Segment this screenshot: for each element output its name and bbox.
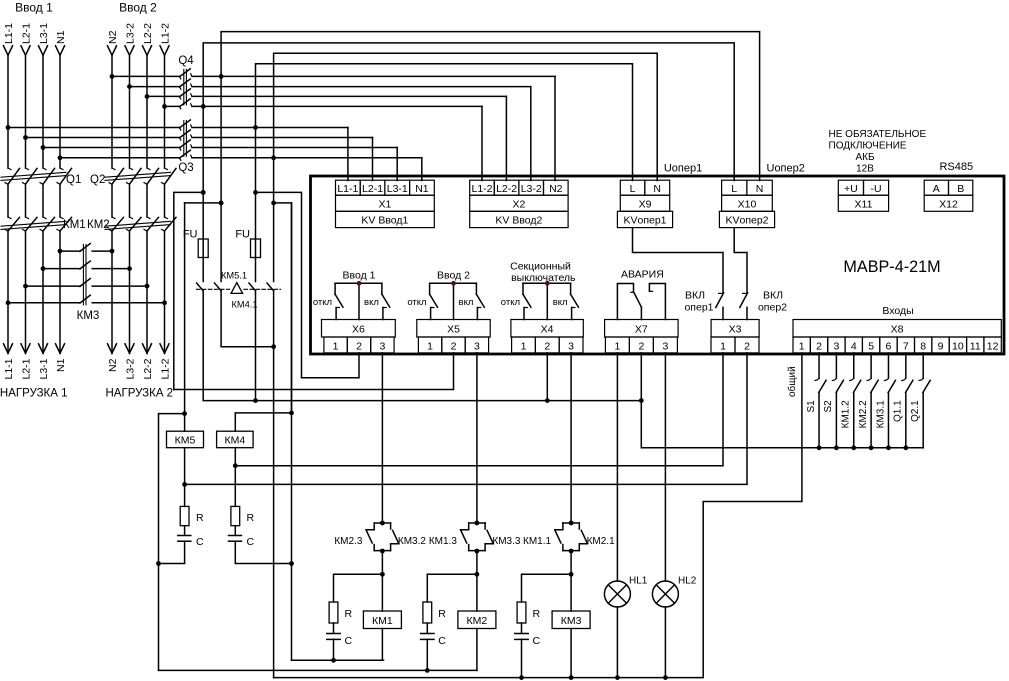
svg-text:L2-2: L2-2: [142, 358, 154, 379]
node L-oper / X7 pin2: [639, 398, 644, 403]
svg-text:C: C: [533, 635, 541, 647]
svg-text:1: 1: [799, 340, 805, 352]
input arrow L1-2 (Ввод 2): [160, 46, 169, 56]
svg-text:L1-2: L1-2: [159, 358, 171, 379]
svg-text:X5: X5: [447, 324, 460, 336]
wire L1-1 between Q1 and KM1: [7, 184, 9, 217]
svg-text:Q4: Q4: [178, 55, 194, 67]
wire R to C (KM5 snubber): [184, 526, 186, 536]
load arrow N1 (НАГРУЗКА 1): [56, 344, 65, 354]
wire snubber branch КМ3: [522, 574, 572, 602]
wire feed to contact pair КМ2.3/КМ3.2: [381, 353, 383, 523]
contactor KM2 (4-pole): [105, 217, 176, 231]
svg-text:Входы: Входы: [882, 305, 913, 317]
wire tap L2-1 to Q3 pole 2: [26, 137, 180, 139]
node N2 / X10-N junction: [219, 74, 224, 79]
input arrow L2-2 (Ввод 2): [143, 46, 152, 56]
svg-text:HL2: HL2: [678, 576, 697, 587]
svg-text:10: 10: [952, 340, 964, 352]
wire N1 net to KM4.1 pole4: [273, 158, 275, 282]
node KM5 RC bottom tie: [156, 561, 161, 566]
wire X7 pin2 to L-oper row and S-bus: [641, 353, 923, 448]
svg-text:КМ4: КМ4: [225, 435, 246, 447]
svg-text:L2-2: L2-2: [142, 23, 154, 44]
svg-text:АВАРИЯ: АВАРИЯ: [621, 269, 664, 281]
svg-text:КМ3: КМ3: [77, 310, 100, 322]
svg-text:C: C: [247, 536, 255, 548]
terminal X4 (Секционный выключатель): [511, 320, 583, 353]
svg-text:3: 3: [662, 340, 668, 352]
contact pair КМ1.3 / КМ3.3: [469, 522, 485, 524]
svg-text:4: 4: [851, 340, 857, 352]
svg-text:L3-1: L3-1: [387, 183, 408, 195]
lamp HL1: [604, 581, 630, 607]
svg-text:KV Ввод2: KV Ввод2: [495, 215, 542, 227]
svg-text:КМ3.3: КМ3.3: [492, 536, 520, 547]
wire load bus L2-2: [146, 231, 148, 353]
wire load bus L1-1: [7, 231, 9, 353]
resistor R (КМ3 snubber): [517, 602, 526, 623]
svg-text:Q2: Q2: [90, 174, 105, 186]
wire N1 branch row to right riser: [274, 203, 292, 413]
contactor KM3 pole 4 link: [8, 302, 80, 304]
node L-oper / KM4.1 pole3: [253, 398, 258, 403]
node snubber branch КМ2: [475, 572, 480, 577]
svg-text:КМ2: КМ2: [467, 615, 488, 627]
svg-text:A: A: [933, 183, 940, 195]
wire X9-N to N1 net: [274, 53, 658, 180]
svg-text:НАГРУЗКА 1: НАГРУЗКА 1: [0, 388, 67, 400]
terminal X12 (RS485): [924, 180, 973, 211]
svg-text:-U: -U: [871, 183, 882, 195]
svg-text:L1-1: L1-1: [337, 183, 358, 195]
svg-text:X12: X12: [939, 198, 958, 210]
wire Q3 pole 4 output to X1 N1: [192, 157, 422, 159]
wire R to C (KM4 snubber): [234, 526, 236, 536]
contact X4 вкл: [570, 283, 572, 294]
wire KM2 return row (N2): [159, 669, 477, 671]
contactor coil КМ1: [363, 611, 401, 629]
capacitor C (KM5 snubber): [178, 535, 191, 537]
wire tap L1-2 to Q4 pole 4: [165, 105, 180, 107]
wire KM5.1 pole2 blade to N-oper join: [221, 291, 274, 347]
node S-bus КМ2.2: [869, 445, 874, 450]
input arrow L2-1 (Ввод 1): [21, 46, 30, 56]
svg-text:X10: X10: [738, 198, 757, 210]
svg-text:Q1.1: Q1.1: [893, 400, 904, 422]
svg-text:ВКЛ: ВКЛ: [685, 290, 705, 302]
wire X4 pin2 to L-oper row: [546, 353, 548, 401]
contact group X4 roof: [523, 282, 571, 284]
input arrow L3-1 (Ввод 1): [39, 46, 48, 56]
svg-text:X7: X7: [635, 324, 648, 336]
wire N2 between Q2 and KM2: [111, 184, 113, 217]
wire R to C (КМ2 snubber): [426, 623, 428, 633]
wire load bus N2: [111, 231, 113, 353]
svg-text:Ввод 2: Ввод 2: [437, 270, 470, 282]
wire KM4 feed row: [235, 413, 291, 431]
wire lamp HL1 to return: [616, 607, 618, 678]
svg-text:7: 7: [903, 340, 909, 352]
contact X4 откл: [522, 283, 524, 294]
svg-text:R: R: [345, 608, 353, 620]
input switch КМ3.1 (X8 pin6): [884, 353, 895, 448]
wire load bus L2-1: [25, 231, 27, 353]
contact group АВАРИЯ (above X7): [617, 284, 665, 320]
wire X7 to lamp HL1: [616, 353, 618, 581]
svg-text:Q2.1: Q2.1: [910, 400, 921, 422]
terminal X9 (KVопер1): [617, 180, 672, 227]
terminal X10 (KVопер2): [719, 180, 774, 227]
svg-text:КМ1.2: КМ1.2: [841, 400, 852, 428]
wire C bottom to N2 side (KM5 snubber): [159, 541, 185, 563]
contactor coil КМ3: [552, 611, 590, 629]
wire FU2 to KM4.1 pole3: [255, 258, 257, 282]
contactor KM3 pole 3 link: [26, 285, 80, 287]
svg-text:9: 9: [938, 340, 944, 352]
svg-text:Q1: Q1: [66, 174, 81, 186]
svg-text:2: 2: [356, 340, 362, 352]
svg-text:L2-1: L2-1: [362, 183, 383, 195]
svg-text:X6: X6: [352, 324, 365, 336]
svg-text:откл: откл: [313, 297, 332, 308]
svg-text:КМ1.1: КМ1.1: [523, 536, 551, 547]
svg-text:N2: N2: [107, 30, 119, 44]
svg-text:C: C: [438, 635, 446, 647]
node N-oper join: [271, 344, 276, 349]
svg-text:МАВР-4-21М: МАВР-4-21М: [843, 258, 940, 276]
input arrow L1-1 (Ввод 1): [4, 46, 13, 56]
node N2 branch: [219, 201, 224, 206]
svg-text:Q3: Q3: [178, 162, 193, 174]
wire KVопер1 to ВКЛ опер1 contact: [633, 228, 724, 294]
svg-text:КМ1: КМ1: [372, 615, 393, 627]
wire L1-1 net to FU2: [255, 128, 257, 240]
svg-text:X2: X2: [512, 198, 525, 210]
svg-text:L1-1: L1-1: [3, 23, 15, 44]
svg-text:KVопер2: KVопер2: [725, 215, 768, 227]
wire N2 side branch (row 413.6): [159, 414, 185, 671]
wire KM1 return row (N1): [292, 659, 384, 661]
wire feeder L3-1 vertical: [42, 55, 44, 168]
terminal X7 (АВАРИЯ): [605, 320, 679, 353]
svg-text:1: 1: [720, 340, 726, 352]
resistor R (KM5 snubber): [180, 506, 189, 525]
svg-text:ПОДКЛЮЧЕНИЕ: ПОДКЛЮЧЕНИЕ: [829, 141, 907, 152]
svg-text:КМ1.3: КМ1.3: [429, 536, 457, 547]
breaker Q3 (4-pole switch): [178, 120, 193, 174]
svg-text:КМ4.1: КМ4.1: [231, 300, 257, 310]
wire tap N1 to Q3 pole 4: [60, 157, 180, 159]
node S-bus КМ1.2: [851, 445, 856, 450]
wire Q3 pole 3 output to X1 L3-1: [192, 147, 397, 149]
svg-text:L: L: [630, 183, 636, 195]
capacitor C (KM4 snubber): [229, 535, 242, 537]
node snubber branch КМ3: [569, 572, 574, 577]
wire tap L1-1 to Q3 pole 1: [8, 127, 180, 129]
load arrow L1-1 (НАГРУЗКА 1): [4, 344, 13, 354]
load arrow L3-2 (НАГРУЗКА 2): [125, 344, 134, 354]
contact pair КМ2.3 / КМ3.2: [374, 522, 390, 524]
fuse FU2: [251, 239, 261, 258]
input switch КМ1.2 (X8 pin4): [850, 353, 861, 448]
svg-text:6: 6: [886, 340, 892, 352]
load arrow L2-2 (НАГРУЗКА 2): [143, 344, 152, 354]
lamp HL2: [652, 581, 678, 607]
svg-text:1: 1: [333, 340, 339, 352]
wire N1 between Q1 and KM1: [59, 184, 61, 217]
node N1 branch: [271, 201, 276, 206]
terminal X2 (KV Ввод2): [470, 180, 568, 227]
svg-text:ВКЛ: ВКЛ: [763, 290, 783, 302]
svg-text:L1-1: L1-1: [3, 358, 15, 379]
wire X10-L to L1-2 net: [203, 43, 734, 181]
wire KVопер2 to ВКЛ опер2 contact: [734, 228, 747, 294]
svg-text:3: 3: [833, 340, 839, 352]
resistor R (KM4 snubber): [231, 506, 240, 525]
svg-text:КМ3: КМ3: [561, 615, 582, 627]
svg-text:общий: общий: [786, 366, 798, 397]
input switch Q2.1 (X8 pin8): [919, 353, 930, 448]
wire Q4 pole 4 output to X2 L1-2: [192, 105, 482, 107]
wire N2 net to KM5.1 pole2: [220, 76, 222, 281]
resistor R (КМ1 snubber): [329, 602, 338, 623]
load arrow N2 (НАГРУЗКА 2): [108, 344, 117, 354]
wire feeder L2-1 vertical: [25, 55, 27, 168]
svg-text:КМ5.1: КМ5.1: [221, 270, 247, 280]
wire KM5 bottom row to X3 pin2: [185, 353, 747, 485]
wire L1-1 branch row to right riser: [256, 192, 302, 377]
wire feeder L3-2 vertical: [129, 55, 131, 168]
svg-text:B: B: [957, 183, 964, 195]
contact X6 откл: [334, 283, 336, 294]
input arrow N2 (Ввод 2): [108, 46, 117, 56]
svg-text:C: C: [196, 536, 204, 548]
terminal X8 (Входы): [793, 320, 1001, 353]
node S-bus S1: [817, 445, 822, 450]
contact ВКЛ опер1 (X3 pin1): [719, 292, 723, 294]
node L1-2 / X10-L junction: [201, 104, 206, 109]
svg-text:НЕ ОБЯЗАТЕЛЬНОЕ: НЕ ОБЯЗАТЕЛЬНОЕ: [829, 129, 927, 140]
wire feed to contact pair КМ1.3/КМ3.3: [476, 353, 478, 523]
node S-bus Q1.1: [903, 445, 908, 450]
svg-text:КМ3.2: КМ3.2: [398, 536, 426, 547]
svg-text:HL1: HL1: [629, 576, 648, 587]
input switch КМ2.2 (X8 pin5): [867, 353, 878, 448]
wire R to C (КМ3 snubber): [521, 623, 523, 633]
svg-text:Uопер1: Uопер1: [664, 163, 702, 175]
terminal X11 (АКБ 12В): [838, 180, 888, 211]
svg-text:L2-1: L2-1: [20, 23, 32, 44]
svg-text:+U: +U: [844, 183, 858, 195]
wire load bus N1: [59, 231, 61, 353]
contactor KM1 (4-pole): [1, 217, 72, 231]
load arrow L1-2 (НАГРУЗКА 2): [160, 344, 169, 354]
wire KM5.1 pole1 blade to L-oper row: [203, 291, 641, 401]
svg-text:N2: N2: [107, 358, 119, 372]
wire X10-N to N2 net: [221, 32, 760, 181]
capacitor C (КМ1 snubber): [327, 633, 340, 635]
input switch Q1.1 (X8 pin7): [902, 353, 913, 448]
svg-text:3: 3: [568, 340, 574, 352]
svg-text:5: 5: [868, 340, 874, 352]
svg-text:N: N: [653, 183, 661, 195]
svg-text:N1: N1: [55, 30, 67, 44]
svg-text:Ввод 1: Ввод 1: [343, 270, 376, 282]
breaker Q2 (4-pole): [105, 168, 176, 184]
breaker Q1 (4-pole): [1, 168, 72, 184]
wire feeder L2-2 vertical: [146, 55, 148, 168]
contactor KM3 linkage: [82, 245, 84, 305]
svg-text:Секционный: Секционный: [510, 260, 571, 272]
svg-text:откл: откл: [407, 297, 426, 308]
wire Q4 pole 2 output to X2 L3-2: [192, 86, 531, 88]
svg-text:S2: S2: [823, 400, 834, 413]
wire feed to contact pair КМ1.1/КМ2.1: [570, 353, 572, 523]
input switch S1 (X8 pin2): [815, 353, 826, 448]
svg-text:KV Ввод1: KV Ввод1: [361, 215, 408, 227]
svg-text:опер2: опер2: [758, 302, 787, 314]
svg-text:2: 2: [744, 340, 750, 352]
terminal X5 (Ввод 2 control): [417, 320, 490, 353]
wire C bottom to N1 side (KM4 snubber): [235, 541, 291, 563]
node L-oper / X4 pin2: [545, 398, 550, 403]
svg-text:X8: X8: [891, 324, 904, 336]
contactor coil КМ2: [458, 611, 496, 629]
wire Q4 pole 1 output to X2 N2: [192, 75, 555, 77]
contactor KM3 pole 2 link: [43, 268, 80, 270]
wire tap L3-2 to Q4 pole 2: [130, 86, 180, 88]
svg-text:X4: X4: [541, 324, 554, 336]
wire L3-1 between Q1 and KM1: [42, 184, 44, 217]
wire snubber branch КМ1: [334, 574, 383, 602]
svg-text:Ввод 1: Ввод 1: [15, 1, 53, 15]
svg-text:FU: FU: [235, 229, 250, 241]
node L1-2 branch: [201, 190, 206, 195]
wire load bus L3-2: [129, 231, 131, 353]
node snubber branch КМ1: [380, 572, 385, 577]
wire L1-2 net to FU1: [202, 106, 204, 239]
wire L2-1 between Q1 and KM1: [25, 184, 27, 217]
svg-text:КМ2.3: КМ2.3: [334, 536, 362, 547]
svg-text:Ввод 2: Ввод 2: [119, 1, 157, 15]
svg-text:2: 2: [638, 340, 644, 352]
svg-text:R: R: [247, 512, 255, 524]
svg-text:2: 2: [816, 340, 822, 352]
node KM2 RC bottom: [425, 668, 430, 673]
input switch S2 (X8 pin3): [832, 353, 843, 448]
wire X9-L to L1-1 net: [256, 64, 633, 181]
wire L1-1 to X6 pin2 (row 378): [302, 353, 360, 378]
svg-text:3: 3: [474, 340, 480, 352]
capacitor C (КМ3 snubber): [515, 633, 528, 635]
svg-text:L3-1: L3-1: [38, 23, 50, 44]
wire KM3 / lamps return row (N-oper): [274, 353, 802, 678]
wire KM4 coil bottom to snubber: [234, 448, 236, 507]
svg-text:L1-2: L1-2: [471, 183, 492, 195]
load arrow L2-1 (НАГРУЗКА 1): [21, 344, 30, 354]
svg-text:N: N: [756, 183, 764, 195]
node L1-2 / FU riser: [201, 190, 206, 195]
svg-text:L3-2: L3-2: [124, 23, 136, 44]
svg-text:2: 2: [451, 340, 457, 352]
node KM4 coil bottom branch: [233, 463, 238, 468]
wire N1 riser to KM4 feed row: [291, 203, 293, 660]
node N1 / X9-N junction: [271, 155, 276, 160]
svg-text:2: 2: [544, 340, 550, 352]
svg-text:12: 12: [987, 340, 999, 352]
svg-text:3: 3: [379, 340, 385, 352]
svg-text:опер1: опер1: [684, 302, 713, 314]
wire tap N2 to Q4 pole 1: [112, 75, 180, 77]
wire R to C (КМ1 snubber): [333, 623, 335, 633]
svg-text:КМ1: КМ1: [63, 219, 86, 231]
svg-text:L3-2: L3-2: [124, 358, 136, 379]
input arrow L3-2 (Ввод 2): [125, 46, 134, 56]
wire lamp HL2 to return: [664, 607, 666, 678]
node KM4 RC bottom tie: [289, 561, 294, 566]
svg-text:КМ5: КМ5: [175, 435, 196, 447]
wire L1-2 branch row to left riser: [174, 192, 203, 389]
svg-text:X3: X3: [729, 324, 742, 336]
wire snubber branch КМ2: [427, 574, 477, 602]
wire pair to coil КМ2: [476, 551, 478, 611]
svg-text:Uопер2: Uопер2: [767, 163, 805, 175]
contact group X6 roof: [335, 282, 382, 284]
contactor KM3 pole 1 link: [60, 250, 80, 252]
wire Q3 pole 2 output to X1 L2-1: [192, 137, 373, 139]
svg-text:КМ2.1: КМ2.1: [587, 536, 615, 547]
svg-text:НАГРУЗКА 2: НАГРУЗКА 2: [106, 388, 174, 400]
svg-text:L: L: [731, 183, 737, 195]
wire tap L3-1 to Q3 pole 3: [43, 147, 180, 149]
svg-text:L3-2: L3-2: [521, 183, 542, 195]
contact X6 вкл: [381, 283, 383, 294]
svg-text:КМ2.2: КМ2.2: [858, 400, 869, 428]
wire X7 to lamp HL2: [664, 353, 666, 581]
svg-text:откл: откл: [501, 297, 520, 308]
wire tap L2-2 to Q4 pole 3: [147, 95, 180, 97]
svg-text:КМ2: КМ2: [87, 219, 110, 231]
svg-text:8: 8: [920, 340, 926, 352]
svg-text:L3-1: L3-1: [38, 358, 50, 379]
wire FU1 to KM5.1 pole1: [202, 258, 204, 282]
wire Q4 pole 3 output to X2 L2-2: [192, 95, 506, 97]
svg-text:11: 11: [970, 340, 981, 352]
contactor coil KM5: [167, 431, 204, 448]
wire KM4.1 pole4 blade / N-oper vertical: [273, 291, 275, 678]
svg-text:1: 1: [521, 340, 527, 352]
wire L2-2 between Q2 and KM2: [146, 184, 148, 217]
svg-text:S1: S1: [806, 400, 817, 413]
terminal X6 (Ввод 1 control): [322, 320, 396, 353]
wire feeder L1-1 vertical: [7, 55, 9, 168]
svg-text:КМ3.1: КМ3.1: [875, 400, 886, 428]
device МАВР-4-21М enclosure: [311, 176, 1005, 354]
resistor R (КМ2 snubber): [423, 602, 432, 623]
svg-text:12В: 12В: [856, 164, 874, 175]
svg-text:выключатель: выключатель: [511, 272, 576, 284]
wire load bus L3-1: [42, 231, 44, 353]
node S-bus S2: [834, 445, 839, 450]
wire N2 riser to KM5 coil: [184, 203, 186, 431]
svg-text:1: 1: [427, 340, 433, 352]
svg-text:L2-2: L2-2: [496, 183, 517, 195]
svg-text:вкл: вкл: [364, 297, 379, 308]
node KM5 coil bottom branch: [182, 482, 187, 487]
wire L1-2 between Q2 and KM2: [164, 184, 166, 217]
node L1-1 / X9-L junction: [253, 125, 258, 130]
